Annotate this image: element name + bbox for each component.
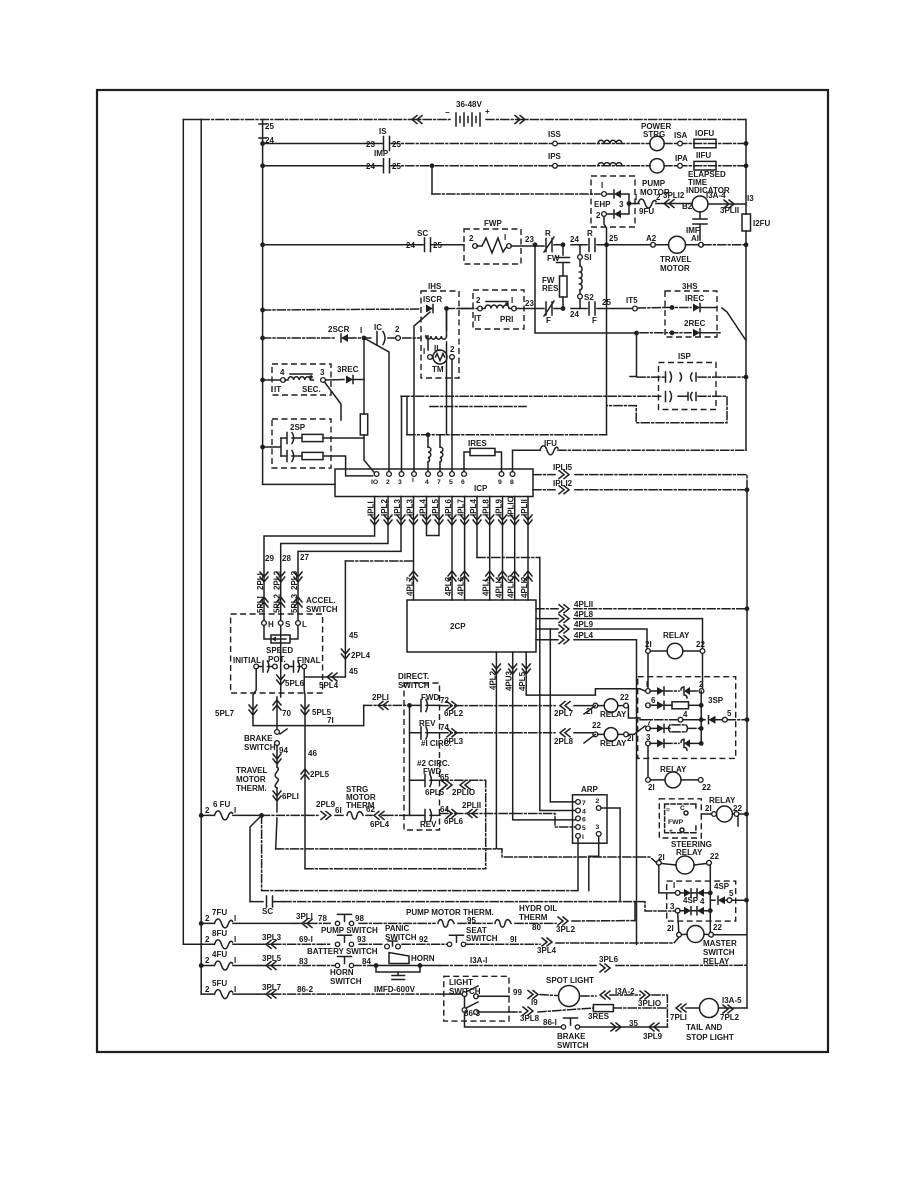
svg-text:2: 2 — [699, 680, 704, 689]
svg-text:I3A-4: I3A-4 — [706, 191, 726, 200]
4SP output diode/5 — [710, 899, 715, 901]
svg-text:FWD: FWD — [423, 767, 441, 776]
svg-text:7: 7 — [647, 718, 652, 727]
svg-text:2PLI: 2PLI — [372, 693, 389, 702]
horn HORN — [374, 963, 379, 968]
2CP connector box — [407, 600, 536, 652]
svg-text:4SP: 4SP — [683, 896, 699, 905]
svg-text:23: 23 — [366, 140, 375, 149]
motor POWER STRG — [650, 136, 664, 150]
terminal L — [296, 621, 301, 626]
terminal ISA — [678, 141, 683, 146]
wire: row2 1SS line — [263, 143, 382, 145]
relay RLY2 arm — [584, 734, 595, 743]
svg-text:4PL3: 4PL3 — [444, 576, 453, 596]
3SP box — [638, 677, 736, 759]
wire: 2SCR row — [263, 337, 421, 339]
svg-text:2PLIO: 2PLIO — [452, 788, 475, 797]
svg-text:22: 22 — [702, 783, 711, 792]
wire 3PL7 row — [258, 993, 444, 995]
svg-text:HORN: HORN — [411, 954, 435, 963]
wire brake to therm — [276, 746, 278, 768]
svg-text:7PLI: 7PLI — [670, 1013, 687, 1022]
svg-text:25: 25 — [433, 241, 442, 250]
lamp TAIL AND STOP LIGHT — [700, 999, 719, 1018]
svg-text:SWITCH: SWITCH — [466, 934, 498, 943]
svg-text:2: 2 — [469, 234, 474, 243]
svg-text:24: 24 — [570, 235, 579, 244]
wire 6PL1 — [276, 788, 278, 812]
ARP connector box — [573, 795, 608, 843]
svg-text:27: 27 — [300, 553, 309, 562]
wire 1PL2 — [281, 497, 388, 576]
inductor on row3 — [598, 163, 622, 166]
wire dashed drop to y890 rail — [262, 815, 577, 890]
wire 3PL5 row — [258, 965, 371, 967]
svg-text:PUMP: PUMP — [642, 179, 666, 188]
light switch contacts — [444, 993, 462, 995]
svg-text:IPLIO: IPLIO — [507, 496, 516, 517]
svg-text:6PL4: 6PL4 — [370, 820, 390, 829]
svg-text:45: 45 — [349, 667, 358, 676]
svg-text:I: I — [234, 985, 236, 994]
wire: left vertical bus 25/24 — [263, 120, 335, 485]
node 1 junction — [362, 336, 367, 341]
switch BATTERY SWITCH — [335, 935, 353, 946]
terminal ISS — [553, 141, 558, 146]
svg-text:74: 74 — [440, 723, 449, 732]
wire 1PL14 — [476, 497, 478, 558]
wire 2PL2/5PL2 to accel S — [280, 575, 282, 623]
inductor pin4 drop — [426, 432, 431, 437]
wire 70 riser — [276, 697, 278, 730]
svg-text:2: 2 — [450, 345, 455, 354]
svg-text:L: L — [302, 620, 307, 629]
svg-text:95: 95 — [467, 916, 476, 925]
wire: x535 riser to 2REC row — [535, 245, 637, 333]
svg-text:4PL8: 4PL8 — [574, 610, 594, 619]
junction 1PL13/45 tap — [345, 560, 413, 562]
LIGHT SWITCH box — [444, 976, 509, 1021]
svg-text:EHP: EHP — [594, 200, 611, 209]
svg-text:2: 2 — [205, 806, 210, 815]
junction row2/right bus — [744, 141, 749, 146]
svg-text:2PL8: 2PL8 — [554, 737, 574, 746]
svg-text:THERM.: THERM. — [236, 784, 267, 793]
wire 7FU row — [199, 921, 204, 926]
SEC transformer box — [272, 364, 331, 395]
svg-text:POT.: POT. — [268, 655, 286, 664]
wire 6PL5/2PL10 out — [440, 780, 486, 869]
capacitor R fwd — [544, 229, 554, 252]
wire: node1 diagonal to pin2 riser — [364, 338, 389, 472]
wire master 22 to bus — [714, 934, 747, 936]
wire 7PL1 into tail light — [676, 1004, 686, 1012]
resistor 2SP bottom — [302, 452, 323, 459]
svg-text:6PL6: 6PL6 — [444, 817, 464, 826]
wire: 1SP row2 left — [401, 395, 663, 397]
terminal SEC 3 — [321, 378, 326, 383]
svg-text:3: 3 — [320, 368, 325, 377]
wire: left long riser A — [182, 120, 184, 945]
accel switch box — [231, 614, 323, 693]
svg-text:4: 4 — [700, 897, 705, 906]
svg-text:22: 22 — [696, 640, 705, 649]
svg-text:IPL2: IPL2 — [380, 499, 389, 516]
svg-text:83: 83 — [299, 957, 308, 966]
svg-text:3PL4: 3PL4 — [537, 946, 557, 955]
wire: 1PL15 row — [533, 475, 747, 490]
wire: S1/S2 branch — [579, 245, 581, 309]
wire: pins 4/7 feed line y435 — [407, 434, 607, 436]
wire: FWP row — [263, 244, 464, 246]
1CP pin 1 — [412, 472, 417, 477]
svg-text:3PL6: 3PL6 — [599, 955, 619, 964]
junction 1PL12/right riser — [745, 487, 750, 492]
wire relay21 to 3SP pin1 — [647, 654, 649, 689]
svg-text:28: 28 — [282, 554, 291, 563]
svg-text:2REC: 2REC — [684, 319, 706, 328]
svg-text:LIGHT: LIGHT — [449, 978, 473, 987]
svg-text:3PLII: 3PLII — [720, 206, 739, 215]
svg-text:IPL8: IPL8 — [482, 499, 491, 516]
svg-text:5PL7: 5PL7 — [215, 709, 235, 718]
svg-text:IFU: IFU — [544, 439, 557, 448]
svg-text:ARP: ARP — [581, 785, 599, 794]
svg-text:FWD: FWD — [421, 693, 439, 702]
svg-text:4: 4 — [683, 710, 688, 719]
resistor 2SP top — [302, 434, 323, 441]
wire: 1SCR row to PRI box — [459, 308, 473, 310]
svg-text:3PLI: 3PLI — [296, 912, 313, 921]
junction FWP/x535 riser — [533, 242, 538, 247]
svg-text:ISS: ISS — [548, 130, 562, 139]
svg-text:78: 78 — [318, 914, 327, 923]
svg-text:6PLI: 6PLI — [282, 792, 299, 801]
svg-text:2: 2 — [596, 211, 601, 220]
svg-text:SWITCH: SWITCH — [703, 948, 735, 957]
1CP pin 5 — [450, 472, 455, 477]
inductor S coil — [580, 266, 582, 290]
capacitor 2SP bottom — [281, 451, 302, 462]
terminal FWP 2 — [473, 244, 478, 249]
tick marks at bus top — [259, 124, 266, 138]
svg-text:3PLI2: 3PLI2 — [663, 191, 685, 200]
svg-text:4PL4: 4PL4 — [574, 631, 594, 640]
svg-text:2I: 2I — [667, 924, 674, 933]
switch BRAKE SWITCH 2 — [561, 1018, 579, 1029]
transformer SEC winding — [285, 374, 313, 380]
svg-text:I: I — [646, 680, 648, 689]
junction row3/right bus — [744, 163, 749, 168]
terminal A1 — [699, 242, 704, 247]
terminal S — [278, 621, 283, 626]
junction bus/2SCR row — [260, 336, 265, 341]
wire 13A-2 — [600, 991, 610, 999]
wire pin5 to right riser — [727, 719, 747, 721]
svg-text:IC: IC — [374, 323, 382, 332]
svg-text:I3: I3 — [747, 194, 754, 203]
svg-text:I: I — [412, 477, 414, 484]
wire 1PL10 / 4PL10 — [514, 497, 516, 601]
wire: node1 drop / 3REC tie — [363, 338, 365, 414]
wire: pin3 riser — [401, 396, 403, 471]
svg-text:2PL7: 2PL7 — [554, 709, 574, 718]
svg-text:I: I — [234, 806, 236, 815]
svg-text:70: 70 — [282, 709, 291, 718]
svg-text:3: 3 — [670, 902, 675, 911]
capacitor 2SP top — [281, 433, 302, 444]
svg-text:IT5: IT5 — [626, 296, 638, 305]
svg-text:72: 72 — [440, 696, 449, 705]
wire SC branch diagonal — [250, 815, 262, 901]
svg-text:25: 25 — [392, 140, 401, 149]
svg-text:2PL5: 2PL5 — [310, 770, 330, 779]
svg-text:IMFD-600V: IMFD-600V — [374, 985, 416, 994]
svg-text:36-48V: 36-48V — [456, 100, 482, 109]
svg-text:25: 25 — [609, 234, 618, 243]
1SP box — [659, 363, 717, 410]
fuse 10FU — [694, 139, 716, 148]
terminal S1 — [578, 255, 583, 260]
svg-text:MASTER: MASTER — [703, 939, 737, 948]
svg-text:TAIL AND: TAIL AND — [686, 1023, 723, 1032]
svg-text:29: 29 — [265, 554, 274, 563]
junction R/FW — [561, 242, 566, 247]
svg-text:22: 22 — [713, 923, 722, 932]
svg-text:86-2: 86-2 — [297, 985, 314, 994]
wire 1PL1 — [264, 497, 375, 576]
wire: FWP out to R caps — [511, 245, 651, 246]
wire 1PL8 / 4PL1 — [489, 497, 491, 601]
svg-text:FWP: FWP — [484, 219, 502, 228]
svg-text:3SP: 3SP — [708, 696, 724, 705]
svg-text:PANIC: PANIC — [385, 924, 410, 933]
svg-text:S2: S2 — [584, 293, 594, 302]
1CP pin 3 — [399, 472, 404, 477]
svg-text:22: 22 — [592, 721, 601, 730]
svg-text:2I: 2I — [627, 734, 634, 743]
wire: row3 1PS line — [263, 165, 382, 167]
wire 1PL9 / 4PL14 — [502, 497, 504, 601]
wire 1PL4 — [427, 497, 440, 536]
terminal SEC 4 — [281, 378, 286, 383]
junction bus/row2 — [260, 141, 265, 146]
FWP resistor box — [464, 229, 521, 264]
wire 1PL13 / 4PL7 — [413, 497, 415, 601]
svg-text:4PU3: 4PU3 — [505, 670, 514, 691]
inductor 1HS coil — [426, 336, 447, 350]
svg-text:ICP: ICP — [474, 484, 488, 493]
FWP pump unit box — [659, 799, 701, 838]
svg-text:4PL5: 4PL5 — [518, 671, 527, 691]
3SP row3: pin4/5 — [640, 719, 678, 721]
wire 3PL2 out — [558, 917, 568, 925]
inductor on row2 — [598, 140, 622, 143]
svg-text:I: I — [504, 233, 506, 242]
svg-text:84: 84 — [362, 957, 371, 966]
battery BT 36-48V — [445, 100, 490, 126]
svg-text:2PL3: 2PL3 — [290, 570, 299, 590]
svg-text:2PL9: 2PL9 — [316, 800, 336, 809]
meter IL/TM — [433, 350, 447, 364]
svg-text:I3A-5: I3A-5 — [722, 996, 742, 1005]
svg-text:IPLI2: IPLI2 — [553, 479, 573, 488]
wire ARP2 loop — [601, 808, 620, 902]
svg-text:S: S — [285, 620, 291, 629]
svg-text:2: 2 — [205, 956, 210, 965]
svg-text:IS: IS — [379, 127, 387, 136]
wire 4PL9 out — [536, 629, 647, 648]
DIRECT SWITCH box — [404, 683, 440, 830]
wire 13A-1 row — [440, 964, 747, 966]
svg-text:MOTOR: MOTOR — [236, 775, 266, 784]
svg-text:3PL8: 3PL8 — [520, 1014, 540, 1023]
wire 3PL4 out — [542, 938, 552, 946]
wire: EHP pin2 drop to travel row — [604, 216, 607, 244]
svg-text:BATTERY SWITCH: BATTERY SWITCH — [307, 947, 378, 956]
svg-text:MOTOR: MOTOR — [660, 264, 690, 273]
wire 1PL11 / 4PL12 — [527, 497, 529, 601]
svg-text:SWITCH: SWITCH — [306, 605, 338, 614]
ARP pin 7 — [576, 800, 581, 805]
3HS box — [665, 291, 717, 337]
svg-text:3REC: 3REC — [337, 365, 359, 374]
wire: 2SP bottom to pin10 — [323, 456, 373, 476]
thermal HYDR OIL THERM — [495, 920, 511, 928]
svg-text:BRAKE: BRAKE — [557, 1032, 586, 1041]
svg-text:98: 98 — [355, 914, 364, 923]
svg-text:R: R — [587, 229, 593, 238]
svg-text:99: 99 — [513, 988, 522, 997]
wire 3SP pin3 to relay4 — [647, 746, 649, 778]
svg-text:SWITCH: SWITCH — [330, 977, 362, 986]
wire: 1SP row2 right return — [607, 396, 728, 423]
switch SEAT SWITCH — [447, 935, 465, 946]
svg-text:5PL6: 5PL6 — [285, 679, 305, 688]
ARP pin 4 — [576, 808, 581, 813]
svg-text:IPL6: IPL6 — [444, 499, 453, 516]
wire steering 22 drop — [709, 865, 711, 935]
wire relay right to bus — [701, 814, 746, 826]
svg-text:STRG: STRG — [643, 130, 665, 139]
inductor pin7 drop — [439, 435, 441, 472]
terminal PRI 1 — [512, 306, 517, 311]
svg-text:5PL3: 5PL3 — [290, 593, 299, 613]
svg-text:F: F — [592, 316, 597, 325]
terminal EHP 2 — [602, 212, 607, 217]
svg-text:SWITCH: SWITCH — [557, 1041, 589, 1050]
1CP pin 8 — [510, 472, 515, 477]
svg-text:RELAY: RELAY — [600, 739, 627, 748]
svg-text:2I: 2I — [658, 853, 665, 862]
svg-text:SI: SI — [584, 253, 592, 262]
wire 4PL8 out — [536, 619, 703, 648]
wire into relay2 (2PL8) — [560, 729, 570, 737]
1HS box — [421, 291, 459, 378]
svg-text:IPL4: IPL4 — [469, 499, 478, 516]
capacitor SC (24/25) — [406, 229, 442, 252]
svg-text:REV: REV — [420, 820, 437, 829]
svg-text:SC: SC — [417, 229, 428, 238]
wire 2PL1 into FWD — [364, 704, 410, 706]
svg-text:PUMP SWITCH: PUMP SWITCH — [321, 926, 378, 935]
svg-text:F: F — [546, 316, 551, 325]
switch arm from SEC 3 — [325, 382, 342, 420]
svg-text:2PLII: 2PLII — [462, 801, 481, 810]
capacitor 1MF — [686, 212, 707, 243]
wire y868 rail — [305, 868, 486, 870]
svg-text:3: 3 — [398, 479, 402, 486]
junction bus/row3 — [260, 163, 265, 168]
svg-text:2: 2 — [205, 935, 210, 944]
resistor FWP zigzag — [477, 238, 509, 253]
wire 6PL4/2PL11 row — [385, 814, 578, 828]
svg-text:2PL2: 2PL2 — [273, 570, 282, 590]
capacitor 1MP — [366, 149, 401, 173]
svg-text:3: 3 — [596, 824, 600, 831]
svg-text:IPLI: IPLI — [367, 501, 376, 516]
svg-text:SPEED: SPEED — [266, 646, 293, 655]
svg-text:2I: 2I — [645, 640, 652, 649]
svg-text:4: 4 — [582, 809, 586, 816]
svg-text:4PL7: 4PL7 — [406, 576, 415, 596]
terminal A2 — [651, 242, 656, 247]
svg-text:SC: SC — [262, 907, 273, 916]
wire SC rail to 4SP pin3 feed — [283, 902, 675, 911]
svg-text:4PLIO: 4PLIO — [507, 575, 516, 598]
svg-text:7FU: 7FU — [212, 908, 227, 917]
svg-text:I: I — [582, 834, 584, 841]
ARP pin 5 — [576, 825, 581, 830]
wire: SEC row — [263, 379, 281, 381]
svg-text:5: 5 — [729, 889, 734, 898]
3SP row1: pin1 — [646, 689, 651, 694]
wire: A1 to right bus — [656, 244, 699, 246]
wire: right riser lower — [746, 490, 748, 1008]
svg-text:IOFU: IOFU — [695, 129, 714, 138]
wire: EHP diode join — [607, 194, 639, 214]
4SP box — [667, 881, 736, 921]
terminal 2 (1C out) — [396, 336, 401, 341]
wire RLY1 out to 3SP pin4 row — [628, 706, 640, 718]
svg-text:2SCR: 2SCR — [328, 325, 350, 334]
svg-text:6PL5: 6PL5 — [425, 788, 445, 797]
svg-text:8: 8 — [510, 479, 514, 486]
svg-text:TRAVEL: TRAVEL — [236, 766, 268, 775]
svg-text:HYDR OIL: HYDR OIL — [519, 904, 557, 913]
svg-text:23: 23 — [525, 235, 534, 244]
svg-text:I9: I9 — [531, 998, 538, 1007]
svg-text:+: + — [669, 828, 673, 835]
wire REV out 6PL3 — [440, 732, 555, 734]
svg-text:+: + — [485, 107, 490, 116]
wire: resistor to pin10 — [364, 435, 375, 474]
svg-text:IPL9: IPL9 — [495, 499, 504, 516]
svg-text:2: 2 — [596, 798, 600, 805]
svg-text:ISA: ISA — [674, 131, 688, 140]
svg-text:IMP: IMP — [374, 149, 389, 158]
wire 7PL2 to bus — [719, 1007, 748, 1009]
wire 2PL3/5PL3 to accel L — [297, 575, 299, 623]
wire 9FU to indicator — [656, 203, 692, 205]
wire: 1SCR gate to pin1 riser — [414, 312, 430, 472]
svg-text:9FU: 9FU — [639, 207, 654, 216]
wire direct switch spine — [409, 705, 411, 815]
svg-text:PRI: PRI — [500, 315, 513, 324]
junction right bus / travel row — [744, 242, 749, 247]
terminal S2 — [578, 294, 583, 299]
